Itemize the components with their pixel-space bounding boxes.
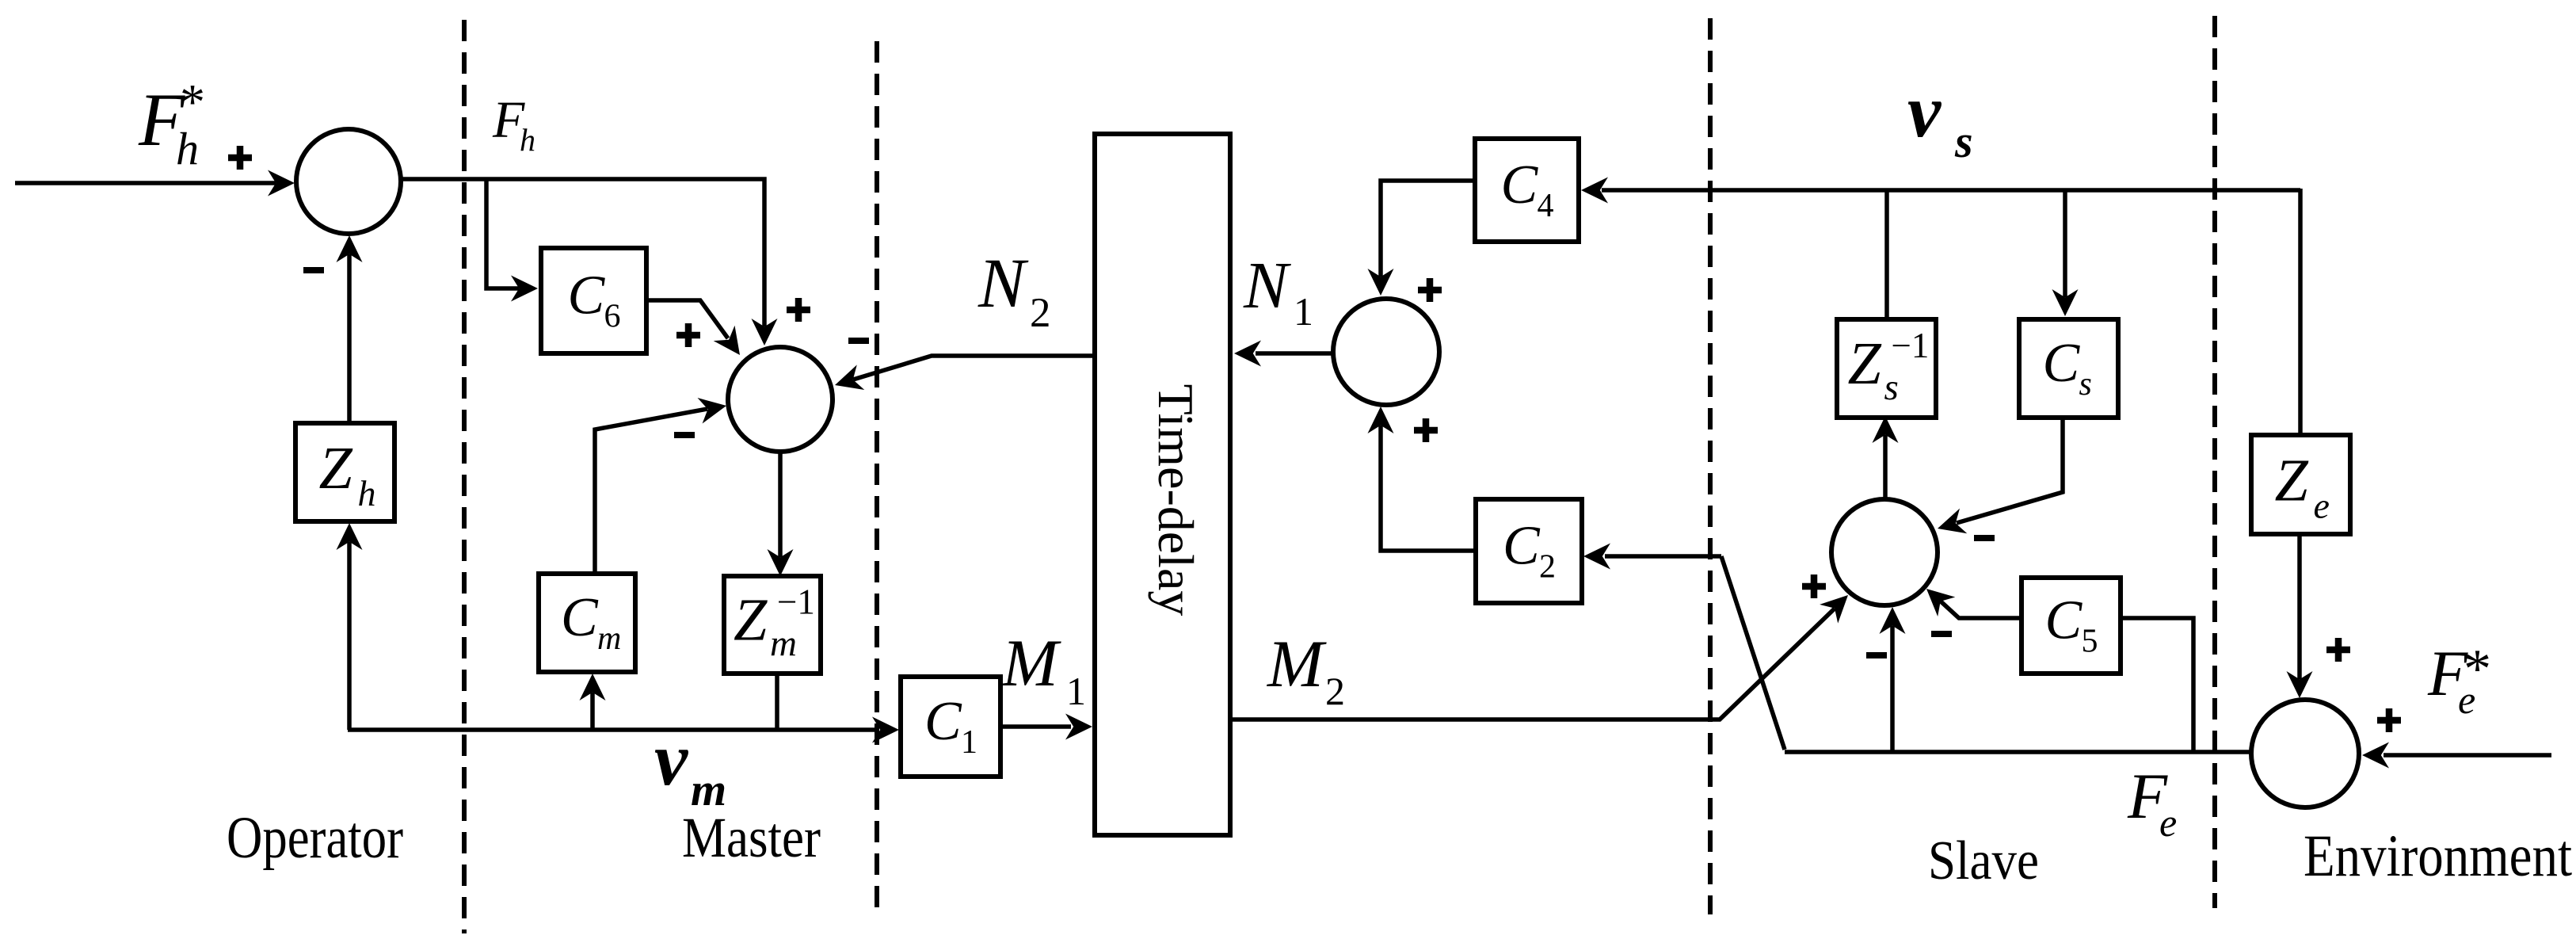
svg-text:6: 6: [604, 299, 621, 335]
svg-text:M: M: [1267, 627, 1327, 701]
block Ze: [2251, 435, 2350, 534]
boundary dashed line Master/channel: [875, 41, 879, 915]
svg-text:C: C: [1501, 155, 1539, 216]
wire K4 output to Zs-1: [1883, 435, 1888, 499]
svg-text:C: C: [924, 691, 962, 752]
minus sign Cs input to K4: [1974, 535, 1995, 541]
block C1: [901, 677, 1000, 777]
block C4: [1475, 139, 1579, 242]
svg-text:Time-delay: Time-delay: [1148, 384, 1204, 616]
wire C4 output to K3: [1381, 181, 1475, 277]
summing junction K3 (N1): [1333, 299, 1439, 405]
svg-text:4: 4: [1538, 188, 1554, 224]
wire Zh output to K1: [347, 254, 352, 423]
svg-text:s: s: [2079, 366, 2092, 403]
svg-text:h: h: [176, 123, 199, 174]
svg-text:m: m: [770, 624, 797, 665]
svg-text:m: m: [597, 620, 621, 657]
wire Fe horizontal: [1785, 750, 2254, 754]
svg-text:M: M: [1001, 626, 1061, 700]
svg-text:s: s: [1884, 367, 1899, 408]
svg-text:e: e: [2314, 486, 2330, 526]
plus sign Ze input to K5: [2326, 638, 2350, 662]
wire C1 output M1: [1000, 724, 1071, 729]
minus sign K1 bottom input: [303, 267, 324, 273]
wire branch vm to Cm: [590, 693, 595, 730]
plus sign C2 input to K3: [1414, 418, 1438, 442]
wire N2 from time-delay to K2: [853, 356, 1095, 380]
block C6: [541, 248, 646, 353]
block Cs: [2019, 319, 2118, 418]
summing junction K2 (master): [728, 347, 833, 452]
wire Cs output to K4: [1957, 418, 2063, 523]
svg-text:C: C: [561, 587, 599, 648]
minus sign N2 input: [848, 338, 869, 344]
svg-text:C: C: [1503, 516, 1541, 577]
block C2: [1476, 499, 1582, 603]
svg-text:*: *: [2464, 639, 2491, 700]
svg-text:1: 1: [961, 724, 977, 761]
wire K1 output / Fh: [401, 179, 764, 326]
svg-text:N: N: [977, 245, 1029, 323]
wire C5 output to K4: [1940, 601, 2022, 618]
svg-text:−1: −1: [777, 582, 815, 622]
wire vm horizontal: [348, 727, 878, 732]
svg-text:s: s: [1954, 116, 1973, 167]
wire K2 output to Zm-1: [778, 452, 783, 557]
wire Fh* input: [15, 181, 276, 185]
minus sign Fe input to K4: [1866, 652, 1887, 658]
svg-text:Operator: Operator: [227, 805, 403, 871]
summing junction K5 (environment): [2251, 700, 2359, 807]
wire C6 output to K2: [646, 300, 728, 338]
svg-text:Environment: Environment: [2304, 823, 2572, 889]
block Cm: [539, 574, 635, 672]
block Zs-1: [1837, 319, 1936, 418]
plus sign Fh* input: [228, 146, 252, 170]
wire branch vs to Cs: [2063, 190, 2067, 297]
minus sign Cm input to K2: [674, 432, 695, 438]
svg-text:N: N: [1243, 249, 1291, 323]
plus sign K2 top input: [787, 298, 810, 322]
svg-text:e: e: [2159, 800, 2177, 845]
svg-text:C: C: [2043, 333, 2081, 394]
svg-text:Z: Z: [2275, 448, 2309, 514]
svg-text:Z: Z: [319, 435, 353, 502]
svg-text:C: C: [568, 265, 606, 326]
wire branch vs to Zs-1: [1884, 190, 1889, 319]
svg-text:5: 5: [2082, 624, 2098, 660]
wire vs bus down to Ze: [2298, 189, 2303, 435]
wire Fe to C2: [1605, 554, 1721, 559]
svg-text:2: 2: [1325, 669, 1345, 713]
wire C2 output to K3: [1381, 426, 1476, 551]
block Zh: [295, 423, 394, 521]
plus sign C4 input to K3: [1418, 278, 1442, 302]
svg-text:v: v: [1907, 69, 1942, 153]
wire N1 from K3 to time-delay: [1256, 351, 1333, 356]
wire vs bus to C4: [1602, 188, 2300, 193]
block Zm-1: [724, 576, 821, 674]
boundary dashed line Operator/Master: [462, 20, 467, 933]
wire branch Fe up to K4: [1890, 626, 1895, 752]
svg-text:Slave: Slave: [1928, 830, 2039, 891]
wire branch Fh to C6: [486, 179, 519, 288]
boundary dashed line channel/Slave: [1708, 18, 1713, 914]
plus sign M2 input to K4: [1802, 574, 1826, 598]
block Time-delay: [1095, 134, 1230, 835]
svg-text:2: 2: [1539, 549, 1556, 586]
svg-text:2: 2: [1030, 290, 1051, 336]
wire Zm-1 output down to vm wire: [775, 674, 779, 730]
wire Ze output to K5: [2297, 534, 2302, 679]
minus sign C5 input to K4: [1931, 631, 1952, 637]
svg-text:Z: Z: [1848, 330, 1882, 397]
svg-text:h: h: [358, 473, 376, 513]
svg-text:*: *: [180, 74, 205, 130]
wire branch Fe up to C5: [2121, 618, 2193, 752]
svg-text:1: 1: [1066, 669, 1086, 713]
block C5: [2022, 578, 2121, 674]
wire Cm output to K2: [595, 409, 707, 575]
svg-text:−1: −1: [1892, 326, 1930, 365]
summing junction K1 (operator): [296, 129, 401, 234]
summing junction K4 (slave): [1831, 499, 1938, 605]
svg-text:C: C: [2045, 590, 2083, 651]
plus sign C6 input to K2: [676, 323, 700, 347]
svg-text:Z: Z: [734, 587, 768, 654]
svg-text:Master: Master: [682, 806, 821, 869]
svg-text:v: v: [654, 717, 688, 801]
wire M2 from time-delay to K4: [1230, 609, 1835, 720]
wire vm elbow up to Zh: [347, 542, 352, 730]
plus sign Fe* input to K5: [2377, 708, 2401, 732]
wire Fe* input: [2384, 753, 2551, 758]
boundary dashed line Slave/Environment: [2212, 16, 2217, 908]
svg-text:1: 1: [1294, 289, 1313, 334]
svg-text:h: h: [520, 122, 535, 158]
